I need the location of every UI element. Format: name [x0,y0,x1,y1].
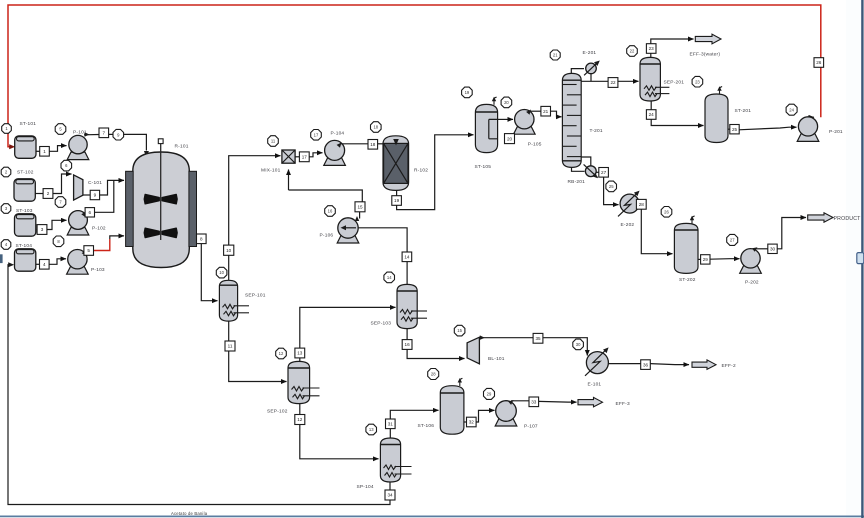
wire ST-105 to P-105 [498,118,513,120]
svg-text:P-102: P-102 [92,226,106,232]
svg-text:19: 19 [465,90,470,95]
svg-text:Acetato de Banila: Acetato de Banila [171,511,208,516]
stream box 2 [43,189,53,199]
svg-text:4: 4 [43,262,46,267]
svg-text:RB-201: RB-201 [568,179,586,185]
node octagon 22 [627,46,638,57]
svg-text:14: 14 [404,255,410,260]
svg-text:SEP-103: SEP-103 [371,320,392,326]
stream box 34 [385,490,395,500]
svg-text:SP-104: SP-104 [357,484,374,490]
svg-text:16: 16 [405,342,411,347]
wire SEP-102 overhead stream 13 to SEP-103 [299,358,301,361]
svg-text:28: 28 [431,372,436,377]
svg-text:25: 25 [732,127,738,132]
pump P-102 [67,211,89,235]
node octagon 11 [268,136,279,147]
node octagon 13 [366,424,377,435]
wire R-102 to ST-105 stream 19 [396,190,398,195]
stream box 18 [368,140,378,150]
node octagon 30 [573,339,584,350]
node octagon 4 [1,240,11,250]
svg-text:ST-105: ST-105 [475,164,492,170]
pump P-101 [67,135,89,159]
svg-text:ST-103: ST-103 [16,208,33,214]
pump P-104 [324,140,346,165]
separator SP-104 [380,438,400,482]
pump P-106 [337,218,359,243]
stream box 13 [295,348,305,358]
reboiler RB-201 [572,168,585,172]
tank ST-101 [15,136,36,158]
svg-text:12: 12 [297,417,303,422]
svg-text:SEP-102: SEP-102 [267,408,288,414]
wire bottom recycle stream 34 (SP-104 to ST-104) [8,265,390,505]
heat exchanger E-202 [620,194,639,213]
svg-text:16: 16 [328,209,333,214]
svg-text:30: 30 [770,247,776,252]
svg-text:C-101: C-101 [88,180,102,186]
tank ST-103 [15,214,36,236]
stream box 12 [295,415,305,425]
stream box 14 [402,252,412,262]
svg-text:21: 21 [553,53,558,58]
effluent arrow EFF-3(water) [695,34,721,44]
node octagon 6 [61,160,72,171]
stream box 6 [85,208,94,217]
wire feed arrow into R-102 top [393,139,399,146]
svg-text:P-202: P-202 [745,279,759,285]
window border bottom [0,515,864,517]
wire ST-101 to P-101 stream 1 [36,150,40,152]
node octagon 20 [501,97,512,108]
stream box 7 [99,128,109,138]
wire SEP-103 overhead stream 14 to P-106 [406,262,408,285]
wire P-107 to EFF-3 stream 33 [508,400,513,405]
wire SP-104 overhead stream 31 to ST-106 [389,429,391,439]
node octagon 15 [454,325,465,336]
window handle right [857,253,864,264]
svg-text:28: 28 [639,202,645,207]
node octagon 19 [462,87,473,98]
node octagon 25 [606,181,617,192]
svg-text:20: 20 [504,100,509,105]
node octagon 14 [384,272,395,283]
wire ST-104 to P-103 stream 4 [36,263,40,265]
svg-text:ST-101: ST-101 [20,121,37,127]
node octagon 29 [484,388,495,399]
svg-text:31: 31 [388,422,394,427]
wire P-104 to R-102 stream 18 [337,143,342,148]
svg-text:22: 22 [630,49,635,54]
stream box 9 [90,190,99,199]
svg-text:17: 17 [314,132,319,137]
svg-text:19: 19 [394,198,400,203]
wire P-105 to T-201 stream 21 [526,110,531,115]
node octagon 18 [371,122,382,133]
svg-text:ST-104: ST-104 [16,243,33,249]
svg-text:27: 27 [601,170,607,175]
svg-text:5: 5 [87,248,90,253]
stream box 21 [541,106,551,116]
stream box 19 [392,196,402,206]
node octagon 8 [53,236,64,247]
node octagon 3 [1,204,11,214]
wire P-101 to R-101 stream 7 [85,132,90,137]
svg-text:23: 23 [649,46,655,51]
svg-text:ST-106: ST-106 [418,423,435,429]
tank ST-105 [475,104,497,152]
svg-text:P-104: P-104 [331,130,345,136]
separator SEP-101 [219,280,237,321]
svg-text:26: 26 [816,60,822,65]
svg-text:25: 25 [609,184,614,189]
heat exchanger E-101 [586,352,608,374]
stream box 25 [730,125,739,134]
separator SEP-201 [640,57,660,101]
svg-text:29: 29 [703,257,709,262]
svg-text:21: 21 [543,109,549,114]
wire ST-103 to P-102 stream 3 [36,229,39,231]
stream box 32 [467,417,477,427]
svg-text:24: 24 [789,107,794,112]
node octagon 28 [428,369,439,380]
wire SEP-201 overhead stream 23 to EFF-3(water) [650,54,652,58]
svg-text:11: 11 [228,344,233,349]
svg-text:E-202: E-202 [621,222,635,228]
tank ST-106 [440,386,464,435]
stream box 20 [505,134,515,144]
node octagon 16 [325,206,336,217]
wire ST-102 to C-101 stream 2 [35,193,43,195]
window border right [861,0,863,518]
window handle left [0,254,3,263]
stream box 23 [646,44,656,54]
wire E-201 to SEP-201 stream 22 [590,74,592,82]
vent ST-105 [492,97,497,105]
stream box 31 [386,419,396,429]
svg-text:18: 18 [370,142,376,147]
svg-text:18: 18 [373,125,378,130]
svg-text:MIX-101: MIX-101 [261,168,281,174]
svg-text:12: 12 [279,351,284,356]
svg-text:9: 9 [94,193,97,198]
node octagon 21 [550,50,560,60]
stream box 17 [299,152,309,162]
wire red recycle stream 26 (P-201 to ST-101) [8,5,821,147]
tank ST-104 [15,249,36,271]
node octagon 23 [692,76,703,87]
svg-text:SEP-201: SEP-201 [664,79,685,85]
svg-text:P-103: P-103 [91,267,105,273]
wire ST-201 to P-201 stream 25 [728,128,730,130]
reactor R-101 agitator shaft and motor [160,144,162,241]
svg-text:22: 22 [610,80,616,85]
wire C-101 to R-101 stream 9 [83,194,91,196]
stream box 26 on red recycle [814,58,824,68]
stream box 1 [40,147,50,157]
wire SEP-103 bottoms stream 16 to BL-101 [406,329,408,340]
node octagon 7 [55,197,66,208]
svg-text:P-107: P-107 [524,423,538,429]
blower BL-101 [467,337,479,364]
svg-text:EFF-3: EFF-3 [616,401,630,407]
tank ST-102 [14,179,35,201]
svg-text:EFF-3(water): EFF-3(water) [690,51,721,57]
wire stream 27 to E-202 [604,177,619,204]
stream box 11 [225,341,235,351]
stream box 15 [355,202,365,212]
svg-text:13: 13 [369,427,374,432]
wire SP-104 bottoms stream 34 [389,482,391,490]
svg-text:R-102: R-102 [414,167,428,173]
svg-text:11: 11 [271,139,276,144]
svg-text:23: 23 [695,79,700,84]
svg-text:BL-101: BL-101 [488,356,505,362]
svg-text:33: 33 [531,400,537,405]
node octagon 12 at SEP-102 [276,348,287,359]
tank ST-202 [674,223,698,273]
node octagon 10 [216,267,227,278]
node octagon 12 [311,130,322,141]
wire P-103 to R-101 stream 5 (red segment) [82,250,86,256]
svg-text:R-101: R-101 [175,143,189,149]
svg-text:15: 15 [357,205,363,210]
node octagon 5 [55,124,66,135]
svg-text:ST-202: ST-202 [679,277,696,283]
product arrow PRODUCT [808,213,833,222]
svg-text:SEP-101: SEP-101 [245,293,266,299]
svg-text:7: 7 [103,131,106,136]
condenser E-201 [571,69,584,74]
stream box 10 [224,245,234,255]
separator SEP-103 [397,284,417,328]
stream box 29 [701,255,710,264]
stream box 3 [37,225,47,235]
svg-text:10: 10 [226,248,232,253]
stream box 4 [40,260,50,270]
svg-text:ST-201: ST-201 [735,108,752,114]
svg-text:ST-102: ST-102 [17,170,34,176]
wire BL-101 to E-101 stream 35 [480,335,485,340]
reactor R-101 impeller lower [144,228,177,237]
reactor R-101 left jacket band [126,171,134,246]
reactor R-101 impeller upper [144,195,177,204]
svg-text:2: 2 [47,191,50,196]
column T-201 [562,73,581,167]
wire E-202 to ST-202 stream 28 [641,209,672,253]
svg-text:24: 24 [649,112,655,117]
svg-text:1: 1 [43,149,46,154]
wire R-101 to SEP-101 [201,244,217,301]
wire R-101 outlet stream 8 [196,238,198,240]
reactor R-101 right jacket band [189,171,197,246]
stream box 33 [529,397,539,407]
wire SEP-201 bottoms stream 24 to ST-201 [650,101,652,110]
wire P-201 discharge into red line [806,116,814,118]
vent ST-202 [690,216,695,224]
svg-text:P-106: P-106 [320,232,334,238]
node octagon 27 [727,234,738,245]
wire MIX-101 to P-104 stream 17 [295,156,299,158]
wire ST-106 to P-107 stream 32 [464,421,467,423]
svg-text:35: 35 [535,336,541,341]
vent ST-106 [458,378,463,386]
svg-text:EFF-2: EFF-2 [722,363,736,369]
tank ST-201 [705,94,728,143]
wire E-101 to EFF-2 stream 36 [609,363,641,365]
stream box 22 [608,78,618,88]
effluent arrow EFF-2 [692,360,716,370]
node octagon 24 [786,104,797,115]
node octagon 2 [1,167,11,177]
svg-text:36: 36 [643,362,649,367]
pump P-105 [514,110,536,135]
stream box 5 [84,246,94,256]
svg-text:26: 26 [664,209,669,214]
svg-text:E-201: E-201 [583,50,597,56]
svg-text:P-105: P-105 [528,141,542,147]
stream box 35 [533,333,543,343]
svg-text:13: 13 [297,351,303,356]
node octagon 26 [661,207,672,218]
stream box 30 [768,244,777,253]
svg-text:27: 27 [730,238,735,243]
svg-text:E-101: E-101 [588,381,602,387]
wire RB-201 to E-202 stream 27 [596,171,599,173]
pump P-201 [797,117,819,142]
mixer MIX-101 [282,150,295,163]
stream box 36 [641,360,651,370]
compressor C-101 [74,175,83,200]
pump P-103 [67,250,89,275]
stream box 24 [646,110,656,120]
svg-text:17: 17 [302,155,308,160]
wire recycle into MIX-101 bottom [288,170,290,191]
svg-text:PRODUCT: PRODUCT [834,216,862,222]
reactor R-102 [383,136,409,191]
svg-text:14: 14 [387,275,392,280]
separator SEP-102 [288,361,310,403]
wire P-106 discharge to box 15 [359,212,361,219]
svg-text:3: 3 [41,227,44,232]
svg-text:P-201: P-201 [829,129,843,135]
svg-text:30: 30 [576,342,581,347]
svg-text:15: 15 [457,328,462,333]
stream box 16 [402,340,412,350]
stream box 8 [197,234,207,244]
wire P-202 to PRODUCT stream 30 [752,247,757,252]
wire P-102 to R-101 stream 6 [81,212,86,217]
wire SEP-101 bottoms stream 11 to SEP-102 [228,321,230,341]
svg-text:10: 10 [219,270,224,275]
svg-text:32: 32 [469,420,475,425]
pump P-202 [740,249,762,274]
reactor R-101 vessel [133,152,190,268]
pump P-107 [495,401,517,426]
stream box 28 [636,199,646,209]
node octagon 9 [113,129,124,140]
svg-text:6: 6 [89,210,92,215]
stream box 27 [599,168,609,178]
node octagon 1 [2,124,12,134]
wire SEP-102 bottoms stream 12 to SP-104 [299,404,301,414]
effluent arrow EFF-3 [578,397,603,407]
svg-text:20: 20 [507,136,513,141]
vent ST-201 [717,86,722,94]
wire SEP-101 overhead stream 10 to MIX-101 [228,256,230,281]
svg-text:T-201: T-201 [590,128,603,134]
svg-text:29: 29 [487,392,492,397]
svg-text:8: 8 [200,237,203,242]
wire ST-202 to P-202 stream 29 [698,258,701,260]
svg-text:34: 34 [387,493,393,498]
